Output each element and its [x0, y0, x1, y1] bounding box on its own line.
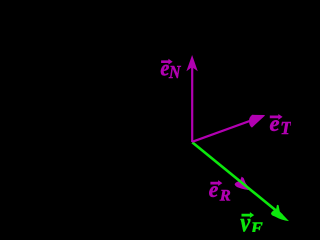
unit vector e_N : arrowhead	[186, 55, 197, 71]
unit vector e_T : shaft	[192, 119, 255, 142]
svg-text:F: F	[250, 218, 264, 232]
label vec e_N	[160, 55, 181, 82]
unit vector e_R : arrowhead (partly hidden under green v_F line)	[235, 177, 251, 191]
label vec v_F (green)	[240, 208, 263, 237]
velocity vector v_F : green arrowhead	[271, 205, 289, 221]
unit vector e_N : shaft	[191, 64, 193, 142]
label vec e_T	[270, 111, 293, 138]
velocity vector v_F : green shaft	[192, 142, 282, 215]
svg-text:e: e	[209, 177, 219, 202]
svg-text:R: R	[219, 187, 231, 204]
label vec e_R	[209, 177, 231, 204]
svg-text:T: T	[280, 118, 291, 138]
svg-text:e: e	[270, 111, 280, 136]
svg-text:N: N	[168, 62, 182, 82]
svg-text:v: v	[240, 208, 250, 232]
unit vector e_T : arrowhead	[249, 115, 265, 128]
